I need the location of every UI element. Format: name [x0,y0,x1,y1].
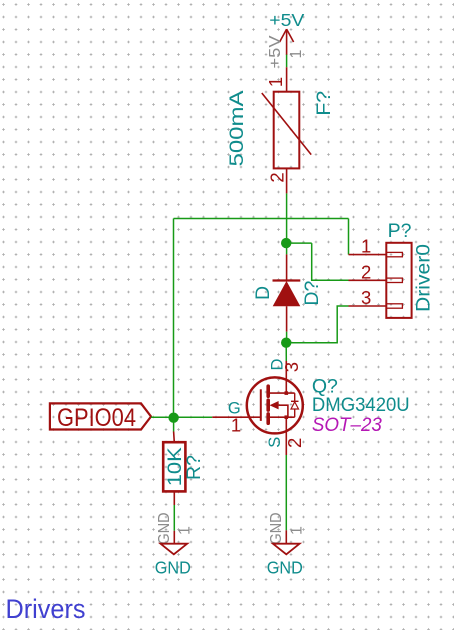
svg-text:1: 1 [288,49,305,58]
ground left symbol [161,544,188,555]
mosfet internal junction drain [285,391,289,395]
ground left pin [173,531,175,544]
mosfet source pin [285,417,287,455]
svg-text:S: S [266,437,284,448]
resistor R? pin 2 [173,491,175,505]
junction C [168,413,178,423]
power symbol +5V [280,29,294,55]
wire vertical left (gate net) [173,219,175,418]
svg-text:2: 2 [361,261,371,282]
svg-text:500mA: 500mA [226,91,248,167]
junction A [281,238,291,248]
resistor R? pin 1 [173,432,176,443]
connector pin 2 [349,278,403,282]
svg-text:DMG3420U: DMG3420U [312,394,410,416]
svg-text:R?: R? [183,455,205,480]
mosfet Q? gate pin [212,416,260,418]
svg-text:SOT–23: SOT–23 [312,414,382,436]
svg-text:Driver0: Driver0 [413,244,435,312]
ground right symbol [273,544,300,555]
wire down to connector pin 2 [312,243,349,280]
svg-text:+5V: +5V [267,35,284,68]
fuse pin 2 [286,168,288,193]
svg-text:1: 1 [177,526,194,535]
connector pin 3 [349,304,403,308]
svg-text:GPIO04: GPIO04 [57,404,136,432]
ground right pin [285,530,287,543]
wire GPIO04 to gate [151,416,212,418]
wire diode to junction B [286,332,288,343]
wire mosfet source to GND right [285,455,287,530]
fuse F? pin 1 [286,67,288,92]
junction B [281,338,291,348]
svg-text:1: 1 [289,526,306,535]
diode D? cathode bar [273,279,301,281]
svg-text:2: 2 [267,172,288,182]
mosfet internal junction source [285,415,289,419]
wire +5V to fuse [286,55,288,68]
resistor R? body [163,442,185,491]
svg-text:GND: GND [155,558,191,578]
svg-text:3: 3 [361,287,371,308]
wire junction B to connector pin 3 [286,306,348,343]
diode D? pin cathode [286,254,288,280]
svg-text:D?: D? [301,280,323,305]
svg-text:1: 1 [361,236,371,257]
diode D? body [273,281,301,306]
wire resistor to GND left [173,505,175,531]
connector P? body [386,243,411,318]
wire junction A right [286,242,312,244]
wire junction B down to mosfet drain [285,343,287,361]
wire horizontal top (gate net to connector pin 1) [174,218,349,220]
wire fuse to junction A [286,193,288,254]
svg-text:Drivers: Drivers [6,594,86,624]
fuse F? body [262,92,311,169]
wire junction C down to resistor [173,418,175,432]
mosfet body arrow [270,401,279,409]
wire down to connector pin 1 [348,219,350,255]
svg-text:2: 2 [284,438,305,448]
mosfet drain pin [285,361,287,393]
svg-text:1: 1 [265,77,286,87]
mosfet Q? body [247,377,303,433]
svg-text:GND: GND [156,513,173,545]
connector pin 1 [349,252,403,256]
svg-text:1: 1 [231,414,241,435]
svg-text:3: 3 [281,362,302,372]
svg-text:GND: GND [267,558,303,578]
svg-text:F?: F? [313,91,335,116]
svg-text:D: D [252,286,274,300]
svg-text:P?: P? [388,220,412,242]
svg-text:+5V: +5V [269,10,304,30]
svg-text:GND: GND [268,513,285,545]
hierarchical label GPIO04 [50,403,151,432]
diode D? pin anode [286,306,288,332]
